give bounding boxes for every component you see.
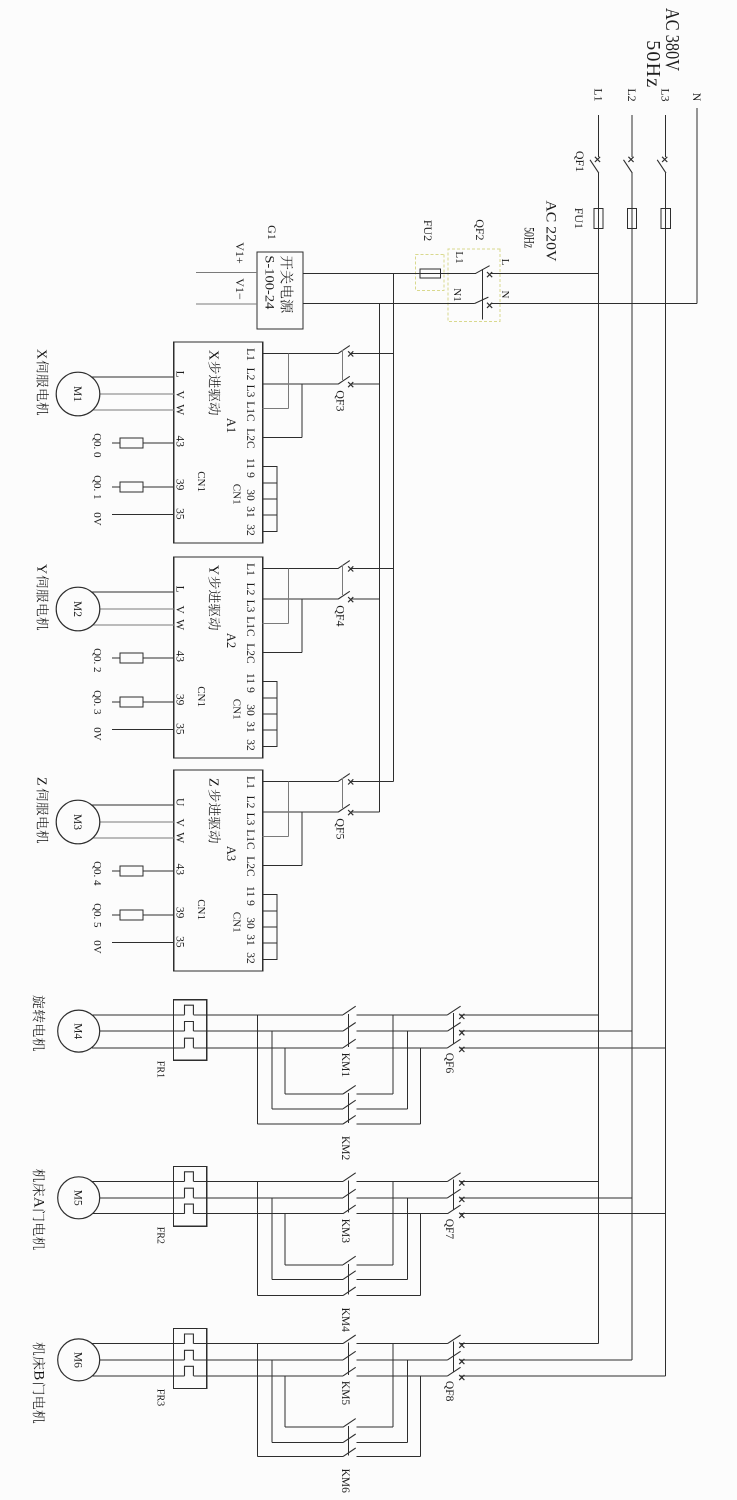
- contactor KM3 contacts: [343, 1173, 356, 1214]
- circuit breaker QF5: [338, 774, 353, 816]
- svg-text:30: 30: [244, 489, 256, 501]
- svg-text:CN1: CN1: [231, 699, 243, 720]
- svg-text:M2: M2: [71, 601, 83, 617]
- fuse FU2: [420, 272, 441, 274]
- svg-text:L1: L1: [592, 88, 606, 101]
- svg-text:Y: Y: [206, 565, 221, 575]
- wire QF4 pole1 to terminal L1: [263, 567, 339, 569]
- svg-text:L3: L3: [244, 600, 256, 613]
- motor M2 wires: [92, 591, 174, 593]
- node L2: [631, 115, 633, 157]
- contactor KM2 crossover wires: [258, 1015, 421, 1124]
- wire L1C tie: [263, 408, 289, 410]
- svg-text:FR1: FR1: [155, 1061, 166, 1078]
- svg-text:L2C: L2C: [244, 643, 256, 664]
- svg-text:FR2: FR2: [155, 1227, 166, 1244]
- wire FU2 to G1 L input: [303, 272, 420, 274]
- svg-text:L1: L1: [453, 251, 465, 263]
- svg-text:M3: M3: [71, 814, 83, 830]
- wire V1- output: [196, 303, 257, 305]
- svg-text:KM4: KM4: [339, 1308, 351, 1333]
- svg-text:L1C: L1C: [244, 616, 256, 637]
- stepper drive A1 box: [174, 342, 263, 543]
- label 机床B门电机: [33, 1343, 46, 1356]
- svg-text:Y: Y: [34, 564, 49, 574]
- svg-text:9: 9: [244, 472, 256, 478]
- svg-text:39: 39: [174, 479, 186, 491]
- circuit breaker QF3: [338, 346, 353, 388]
- contactor KM6 crossover wires: [258, 1344, 421, 1457]
- svg-text:Q0. 2: Q0. 2: [91, 648, 103, 672]
- servo motor M2: [56, 587, 100, 631]
- motor M5: [58, 1177, 100, 1219]
- svg-text:W: W: [174, 832, 186, 843]
- contactor KM2 contacts: [343, 1085, 356, 1124]
- svg-text:M1: M1: [71, 386, 83, 402]
- wire QF2 L to FU2: [441, 272, 476, 274]
- svg-text:W: W: [174, 619, 186, 630]
- svg-text:L2C: L2C: [244, 856, 256, 877]
- thermal relay FR2: [173, 1166, 206, 1226]
- svg-text:B: B: [31, 1370, 47, 1380]
- wire QF2 N to G1 N input: [303, 303, 475, 305]
- wire L1C tie: [263, 623, 289, 625]
- svg-text:G1: G1: [265, 225, 279, 240]
- svg-text:0V: 0V: [91, 940, 103, 954]
- svg-text:X: X: [206, 350, 221, 360]
- label 旋转电机: [33, 995, 46, 1008]
- svg-text:AC 220V: AC 220V: [542, 200, 558, 261]
- svg-text:50Hz: 50Hz: [642, 40, 664, 87]
- wire 0V: [112, 514, 174, 516]
- svg-text:11: 11: [244, 673, 256, 684]
- svg-text:A1: A1: [224, 418, 238, 433]
- node L3: [665, 115, 667, 157]
- svg-text:Q0. 3: Q0. 3: [91, 690, 103, 715]
- svg-text:FU2: FU2: [421, 220, 435, 241]
- svg-text:U: U: [174, 798, 186, 807]
- svg-text:L1C: L1C: [244, 401, 256, 422]
- circuit breaker QF1: [590, 157, 667, 173]
- svg-text:L2C: L2C: [244, 428, 256, 449]
- svg-text:QF7: QF7: [443, 1219, 455, 1240]
- wire L rail to QF3 pole 1: [350, 352, 394, 354]
- svg-text:L2: L2: [244, 796, 256, 809]
- resistor on output Q0. 4: [143, 870, 174, 872]
- svg-text:39: 39: [174, 907, 186, 919]
- wire QF5 pole2 to terminal L3: [263, 811, 339, 813]
- svg-text:KM6: KM6: [339, 1469, 351, 1494]
- power supply G1 box: [257, 252, 303, 329]
- svg-text:V1+: V1+: [233, 242, 247, 264]
- motor M5 wires: [92, 1180, 173, 1182]
- svg-text:M4: M4: [72, 1023, 84, 1039]
- motor M6 wires: [92, 1343, 173, 1345]
- wire L rail to QF4 pole 1: [350, 567, 394, 569]
- svg-text:X: X: [34, 349, 49, 359]
- svg-text:V: V: [174, 818, 186, 827]
- circuit breaker QF7: [448, 1173, 465, 1218]
- svg-text:0V: 0V: [91, 727, 103, 741]
- wire QF3 pole2 to terminal L3: [263, 383, 339, 385]
- stepper drive A2 box: [174, 557, 263, 758]
- svg-text:Z: Z: [206, 778, 221, 787]
- svg-text:35: 35: [174, 508, 186, 520]
- wire N rail to QF4 pole 2: [350, 598, 380, 600]
- svg-text:W: W: [174, 404, 186, 415]
- svg-text:L1: L1: [244, 776, 256, 789]
- svg-text:QF8: QF8: [443, 1381, 455, 1402]
- svg-text:11: 11: [244, 886, 256, 897]
- resistor on output Q0. 5: [143, 914, 174, 916]
- svg-text:50Hz: 50Hz: [520, 227, 536, 248]
- svg-text:KM3: KM3: [339, 1219, 351, 1244]
- svg-text:L2: L2: [244, 583, 256, 596]
- wire QF4 pole2 to terminal L3: [263, 598, 339, 600]
- svg-text:CN1: CN1: [231, 484, 243, 505]
- svg-text:M5: M5: [72, 1190, 84, 1206]
- svg-text:L: L: [174, 371, 186, 378]
- stepper drive A3 box: [174, 770, 263, 971]
- connector CN1 block: [263, 467, 277, 532]
- node L1: [598, 115, 600, 157]
- motor M3 wires: [92, 804, 174, 806]
- svg-text:A2: A2: [224, 633, 238, 648]
- thermal relay FR1: [173, 1000, 206, 1061]
- thermal relay FR3: [173, 1329, 206, 1389]
- wire QF3 pole1 to terminal L1: [263, 352, 339, 354]
- svg-text:V: V: [174, 605, 186, 614]
- svg-text:S-100-24: S-100-24: [263, 255, 278, 310]
- wire QF5 pole1 to terminal L1: [263, 780, 339, 782]
- svg-text:L1: L1: [244, 563, 256, 576]
- svg-text:N: N: [499, 291, 511, 299]
- FU2 dashed outline: [416, 254, 444, 290]
- connector CN1 block: [263, 682, 277, 747]
- contactor KM4 crossover wires: [258, 1181, 421, 1295]
- wire 0V: [112, 729, 174, 731]
- svg-text:CN1: CN1: [231, 912, 243, 933]
- svg-text:0V: 0V: [91, 512, 103, 526]
- svg-text:35: 35: [174, 936, 186, 948]
- svg-text:QF5: QF5: [334, 818, 348, 839]
- svg-text:30: 30: [244, 917, 256, 929]
- resistor on output Q0. 0: [143, 442, 174, 444]
- svg-text:9: 9: [244, 687, 256, 693]
- svg-text:QF1: QF1: [573, 151, 587, 172]
- wire V1+ output: [196, 272, 257, 274]
- svg-text:QF4: QF4: [334, 605, 348, 626]
- svg-text:CN1: CN1: [195, 686, 207, 707]
- svg-text:L1: L1: [244, 348, 256, 361]
- svg-text:L: L: [499, 259, 511, 266]
- motor M1 wires: [92, 376, 174, 378]
- svg-text:Q0. 4: Q0. 4: [91, 861, 103, 886]
- svg-text:31: 31: [244, 506, 256, 518]
- contactor KM4 contacts: [343, 1256, 356, 1295]
- G1 label 开关电源: [280, 256, 292, 269]
- svg-text:11: 11: [244, 458, 256, 469]
- svg-text:Q0. 5: Q0. 5: [91, 903, 103, 928]
- resistor on output Q0. 3: [143, 701, 174, 703]
- svg-text:30: 30: [244, 704, 256, 716]
- svg-text:CN1: CN1: [195, 899, 207, 920]
- servo motor M1: [56, 372, 100, 416]
- fuse FU1: [594, 208, 671, 228]
- svg-text:35: 35: [174, 723, 186, 735]
- svg-text:L3: L3: [659, 88, 673, 101]
- svg-text:43: 43: [174, 436, 186, 448]
- circuit breaker QF4: [338, 561, 353, 603]
- svg-text:QF2: QF2: [473, 219, 487, 240]
- contactor KM5 contacts: [343, 1335, 356, 1376]
- label 机床A门电机: [33, 1169, 46, 1182]
- connector CN1 block: [263, 895, 277, 960]
- svg-text:L3: L3: [244, 813, 256, 826]
- resistor on output Q0. 1: [143, 486, 174, 488]
- svg-text:L2: L2: [244, 368, 256, 381]
- svg-text:CN1: CN1: [195, 471, 207, 492]
- wire L2C tie: [263, 865, 302, 867]
- svg-text:V1−: V1−: [233, 278, 247, 300]
- contactor KM1 contacts: [343, 1006, 356, 1048]
- svg-text:FU1: FU1: [572, 208, 586, 229]
- svg-text:31: 31: [244, 934, 256, 946]
- branch M4 main wires: [207, 1015, 666, 1048]
- svg-text:32: 32: [244, 739, 256, 751]
- svg-text:A3: A3: [224, 846, 238, 861]
- node N: [696, 108, 698, 304]
- svg-text:V: V: [174, 390, 186, 399]
- svg-text:32: 32: [244, 952, 256, 964]
- contactor KM6 contacts: [343, 1419, 356, 1457]
- svg-text:32: 32: [244, 524, 256, 536]
- svg-text:31: 31: [244, 721, 256, 733]
- QF2 dashed outline: [448, 249, 500, 321]
- motor M4 wires: [92, 1014, 173, 1016]
- svg-text:Z: Z: [34, 777, 49, 786]
- svg-text:Q0. 0: Q0. 0: [91, 433, 103, 458]
- svg-text:Q0. 1: Q0. 1: [91, 475, 103, 499]
- svg-text:43: 43: [174, 864, 186, 876]
- wire L2C tie: [263, 652, 302, 654]
- svg-text:L: L: [174, 586, 186, 593]
- svg-text:39: 39: [174, 694, 186, 706]
- svg-text:FR3: FR3: [155, 1389, 166, 1406]
- wire N rail to QF2 N pole: [491, 303, 697, 305]
- wire N rail to QF5 pole 2: [350, 811, 380, 813]
- wire L rail to QF5 pole 1: [350, 780, 394, 782]
- net L 220V rail: [392, 273, 394, 781]
- resistor on output Q0. 2: [143, 657, 174, 659]
- svg-text:KM2: KM2: [339, 1136, 351, 1161]
- svg-text:N1: N1: [451, 288, 463, 301]
- motor M4: [58, 1010, 100, 1052]
- wire 0V: [112, 942, 174, 944]
- svg-text:QF6: QF6: [443, 1053, 455, 1074]
- svg-text:A: A: [31, 1197, 47, 1208]
- servo motor M3: [56, 800, 100, 844]
- motor M6: [58, 1339, 100, 1381]
- wire L1C tie: [263, 836, 289, 838]
- svg-text:L1C: L1C: [244, 829, 256, 850]
- svg-text:9: 9: [244, 900, 256, 906]
- svg-text:N: N: [690, 93, 704, 102]
- svg-text:KM1: KM1: [339, 1053, 351, 1078]
- net N 220V rail: [378, 304, 380, 813]
- svg-text:L3: L3: [244, 385, 256, 398]
- circuit breaker QF6: [448, 1006, 465, 1052]
- wire L2C tie: [263, 437, 302, 439]
- branch M6 main wires: [207, 1344, 666, 1376]
- circuit breaker QF2: [475, 266, 493, 320]
- svg-text:QF3: QF3: [334, 390, 348, 411]
- branch M5 main wires: [207, 1181, 666, 1213]
- svg-text:M6: M6: [72, 1352, 84, 1368]
- wire L1 rail to QF2 L pole: [491, 272, 599, 274]
- svg-text:KM5: KM5: [339, 1381, 351, 1406]
- circuit breaker QF8: [448, 1335, 465, 1380]
- svg-text:43: 43: [174, 651, 186, 663]
- wire N rail to QF3 pole 2: [350, 383, 380, 385]
- svg-text:L2: L2: [625, 88, 639, 101]
